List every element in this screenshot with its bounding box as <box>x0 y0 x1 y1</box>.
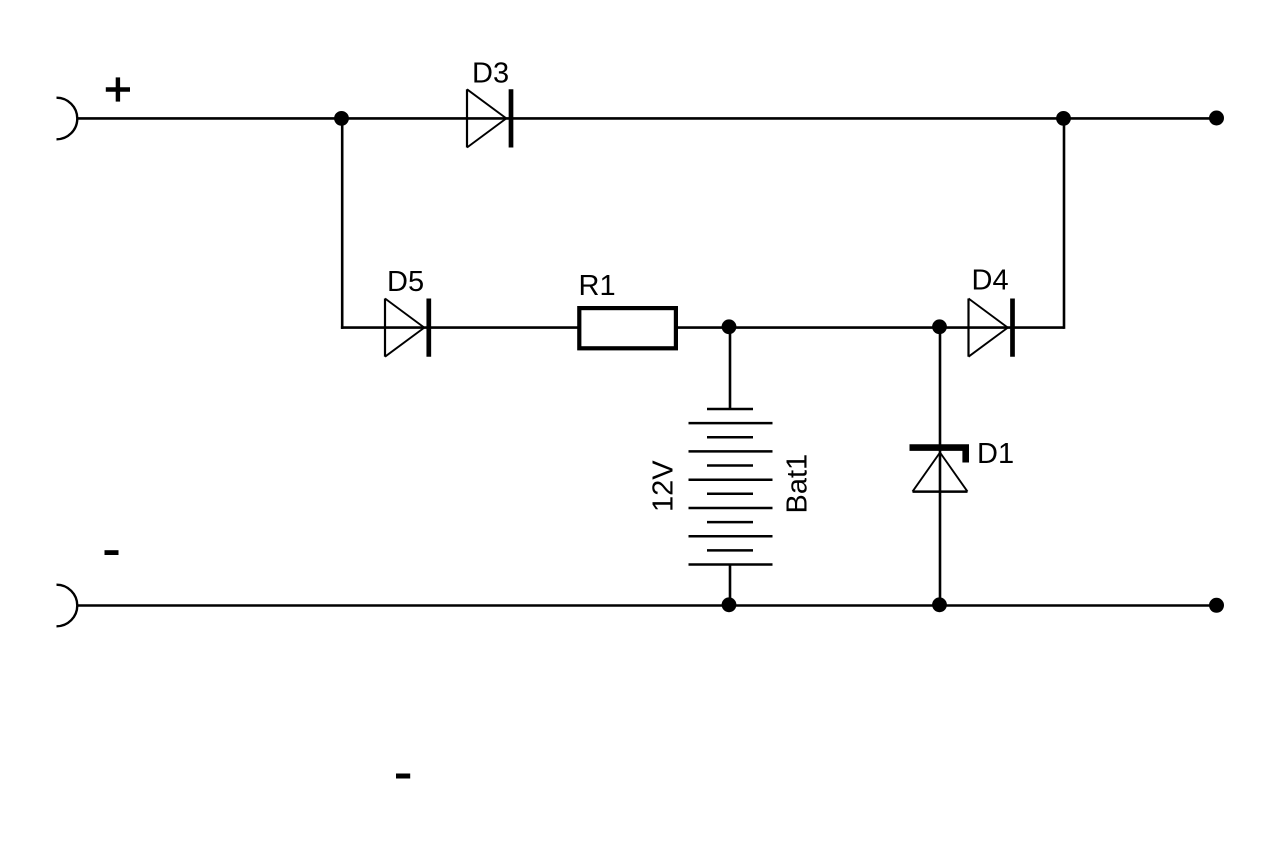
svg-text:D5: D5 <box>387 266 424 298</box>
svg-text:R1: R1 <box>579 270 616 302</box>
svg-text:Bat1: Bat1 <box>782 454 814 514</box>
svg-text:12V: 12V <box>648 460 680 512</box>
svg-text:D3: D3 <box>472 58 509 90</box>
svg-text:D1: D1 <box>977 438 1014 470</box>
svg-text:D4: D4 <box>972 265 1009 297</box>
